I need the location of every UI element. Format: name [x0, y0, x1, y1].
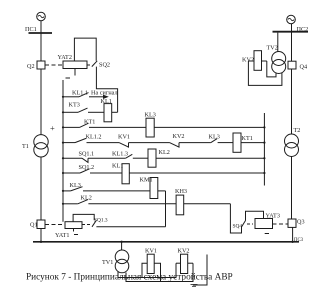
wire loop YAT2 to SQ2 — [74, 38, 96, 61]
left rail (+) — [62, 80, 64, 222]
svg-text:KL2: KL2 — [81, 195, 92, 202]
svg-text:KT1: KT1 — [242, 135, 253, 142]
node dot feeder2 at bus — [291, 241, 293, 243]
svg-text:SQ2: SQ2 — [99, 62, 110, 69]
svg-text:Q2: Q2 — [27, 63, 35, 70]
svg-text:TV1: TV1 — [102, 259, 113, 266]
trip coil YAT2 — [63, 61, 87, 69]
svg-text:KL1.3: KL1.3 — [112, 151, 128, 158]
svg-text:ПС3: ПС3 — [294, 238, 304, 243]
wire feeder2 mid (Q4 to T2) — [291, 69, 293, 134]
svg-text:KT3: KT3 — [69, 102, 80, 109]
rung 8: contact KL2, relay coil KH3 — [63, 203, 78, 205]
wire KM1 down to SQ1.3 line — [165, 191, 167, 227]
rung 3: contact KT1, relay coil KL3 — [63, 126, 80, 128]
svg-text:KH3: KH3 — [175, 188, 187, 195]
bottom bus — [33, 241, 299, 243]
rung 7: contact KL3, contactor coil KM1 — [63, 190, 71, 192]
svg-text:KM1: KM1 — [140, 177, 153, 184]
wires TV1 secondary down — [118, 263, 176, 277]
svg-text:KV2: KV2 — [173, 133, 185, 140]
wire feeder2 bottom (Q3 to bus) — [292, 227, 294, 241]
svg-text:Q3: Q3 — [297, 219, 305, 226]
svg-text:KV2: KV2 — [178, 248, 190, 255]
svg-text:YAT2: YAT2 — [58, 54, 72, 61]
wire feeder1 bottom (Q1 to bus) — [40, 229, 42, 242]
svg-text:SQ1.3: SQ1.3 — [94, 218, 108, 224]
svg-text:KL3: KL3 — [70, 182, 81, 189]
minus terminal under YAT1 — [73, 229, 75, 232]
breaker Q2 — [37, 61, 45, 69]
contact SQ2 — [92, 61, 97, 67]
svg-text:KL3: KL3 — [145, 112, 156, 119]
voltage transformer TV2 — [272, 52, 286, 66]
svg-text:Т1: Т1 — [22, 143, 29, 150]
wire feeder1 low (T1 to Q1) — [40, 157, 42, 220]
node dot feeder1 at bus — [40, 241, 42, 243]
breaker Q3 — [288, 219, 296, 227]
rung 4: contacts KL1.2, KV1, KV2, KL3 and time relay coil KT1 — [63, 142, 75, 144]
svg-text:KL3: KL3 — [209, 134, 220, 141]
trip coil YAT3 — [255, 219, 273, 229]
svg-text:Q4: Q4 — [300, 64, 308, 71]
wire rung8 down to SQ4 — [230, 204, 241, 233]
svg-text:YAT1: YAT1 — [55, 232, 69, 239]
svg-text:Т2: Т2 — [294, 127, 301, 134]
svg-text:KT1: KT1 — [84, 119, 95, 126]
wires KV2 terminals — [176, 262, 181, 264]
svg-text:KL1: KL1 — [101, 98, 112, 105]
right rail — [263, 113, 265, 186]
transformer T1 — [34, 135, 48, 149]
svg-text:TV2: TV2 — [267, 45, 278, 52]
AC source G2 (ПС2) — [287, 15, 296, 24]
svg-text:SQ1.1: SQ1.1 — [79, 151, 95, 158]
wire TV2 branch from bus2 — [277, 33, 279, 52]
voltage relay coil KV2 (top) — [254, 51, 262, 71]
svg-text:KL1.1: KL1.1 — [72, 90, 88, 97]
contact SQ1.3 — [92, 220, 96, 227]
breaker Q4 — [288, 61, 296, 69]
wire SQ2 down to rung 2 — [96, 67, 117, 113]
svg-text:Рисунок 7 - Принципиальная схе: Рисунок 7 - Принципиальная схема устройс… — [26, 272, 233, 283]
wire loop SQ4 to YAT3 — [246, 211, 264, 220]
svg-text:KL2: KL2 — [159, 149, 170, 156]
voltage relay coil KV1 (bottom) — [147, 254, 154, 273]
wire feeder2 low (T2 to Q3) — [291, 157, 293, 220]
wire loop YAT1 to SQ1.3 — [73, 214, 94, 221]
wire SQ1.3 to KM1 drop — [96, 226, 165, 228]
breaker Q1 — [37, 220, 45, 229]
stub wire right of KV2 — [193, 255, 207, 286]
svg-text:KV1: KV1 — [145, 248, 157, 255]
dashed link Q2-YAT2-SQ2 — [45, 64, 63, 66]
svg-text:Q1: Q1 — [30, 222, 38, 229]
svg-text:+: + — [50, 123, 55, 133]
node dots left rail — [62, 96, 64, 98]
trip coil YAT1 — [65, 222, 82, 229]
voltage relay coil KV2 (bottom) — [181, 254, 188, 273]
voltage transformer TV1 (bottom) — [121, 242, 123, 250]
rung 6: contact SQ1.2, relay coil KL1 — [63, 172, 80, 174]
dashed link YAT3-Q3 — [247, 223, 253, 225]
dashed link Q1-YAT1-SQ1.3 — [45, 224, 65, 226]
svg-text:KV1: KV1 — [118, 134, 130, 141]
svg-text:YAT3: YAT3 — [266, 213, 280, 220]
svg-text:KL1: KL1 — [112, 163, 123, 170]
svg-text:На сигнал: На сигнал — [91, 90, 118, 97]
svg-text:KL1.2: KL1.2 — [86, 134, 102, 141]
svg-text:SQ4: SQ4 — [233, 224, 243, 230]
wire feeder1 top (source to Q2) — [40, 21, 42, 61]
rung 5: contacts SQ1.1, KL1.3, relay coil KL2 — [63, 157, 82, 159]
transformer T2 — [285, 134, 299, 148]
svg-text:SQ1.2: SQ1.2 — [79, 164, 95, 171]
svg-text:ПС1: ПС1 — [25, 26, 37, 33]
AC source G1 (ПС1) — [37, 12, 46, 21]
wires KV2 to TV2 secondary — [248, 60, 254, 62]
ground mark under KV2 — [191, 284, 198, 286]
node dots right rail — [263, 126, 265, 128]
bus 1 — [29, 32, 53, 34]
minus terminal under YAT2 — [74, 69, 76, 76]
rung 2: contact KT3, relay coil KL1 — [63, 111, 78, 113]
rung 1: contact KL1.1, arrow "На сигнал" — [63, 96, 79, 98]
wires KV1 terminals — [142, 263, 147, 277]
bus 2 — [273, 31, 309, 33]
minus terminal under YAT3 — [265, 233, 269, 235]
contact SQ4 — [242, 221, 246, 228]
wire feeder1 mid (Q2 to T1) — [40, 69, 42, 135]
wire feeder2 top (source to Q4) — [291, 24, 293, 61]
